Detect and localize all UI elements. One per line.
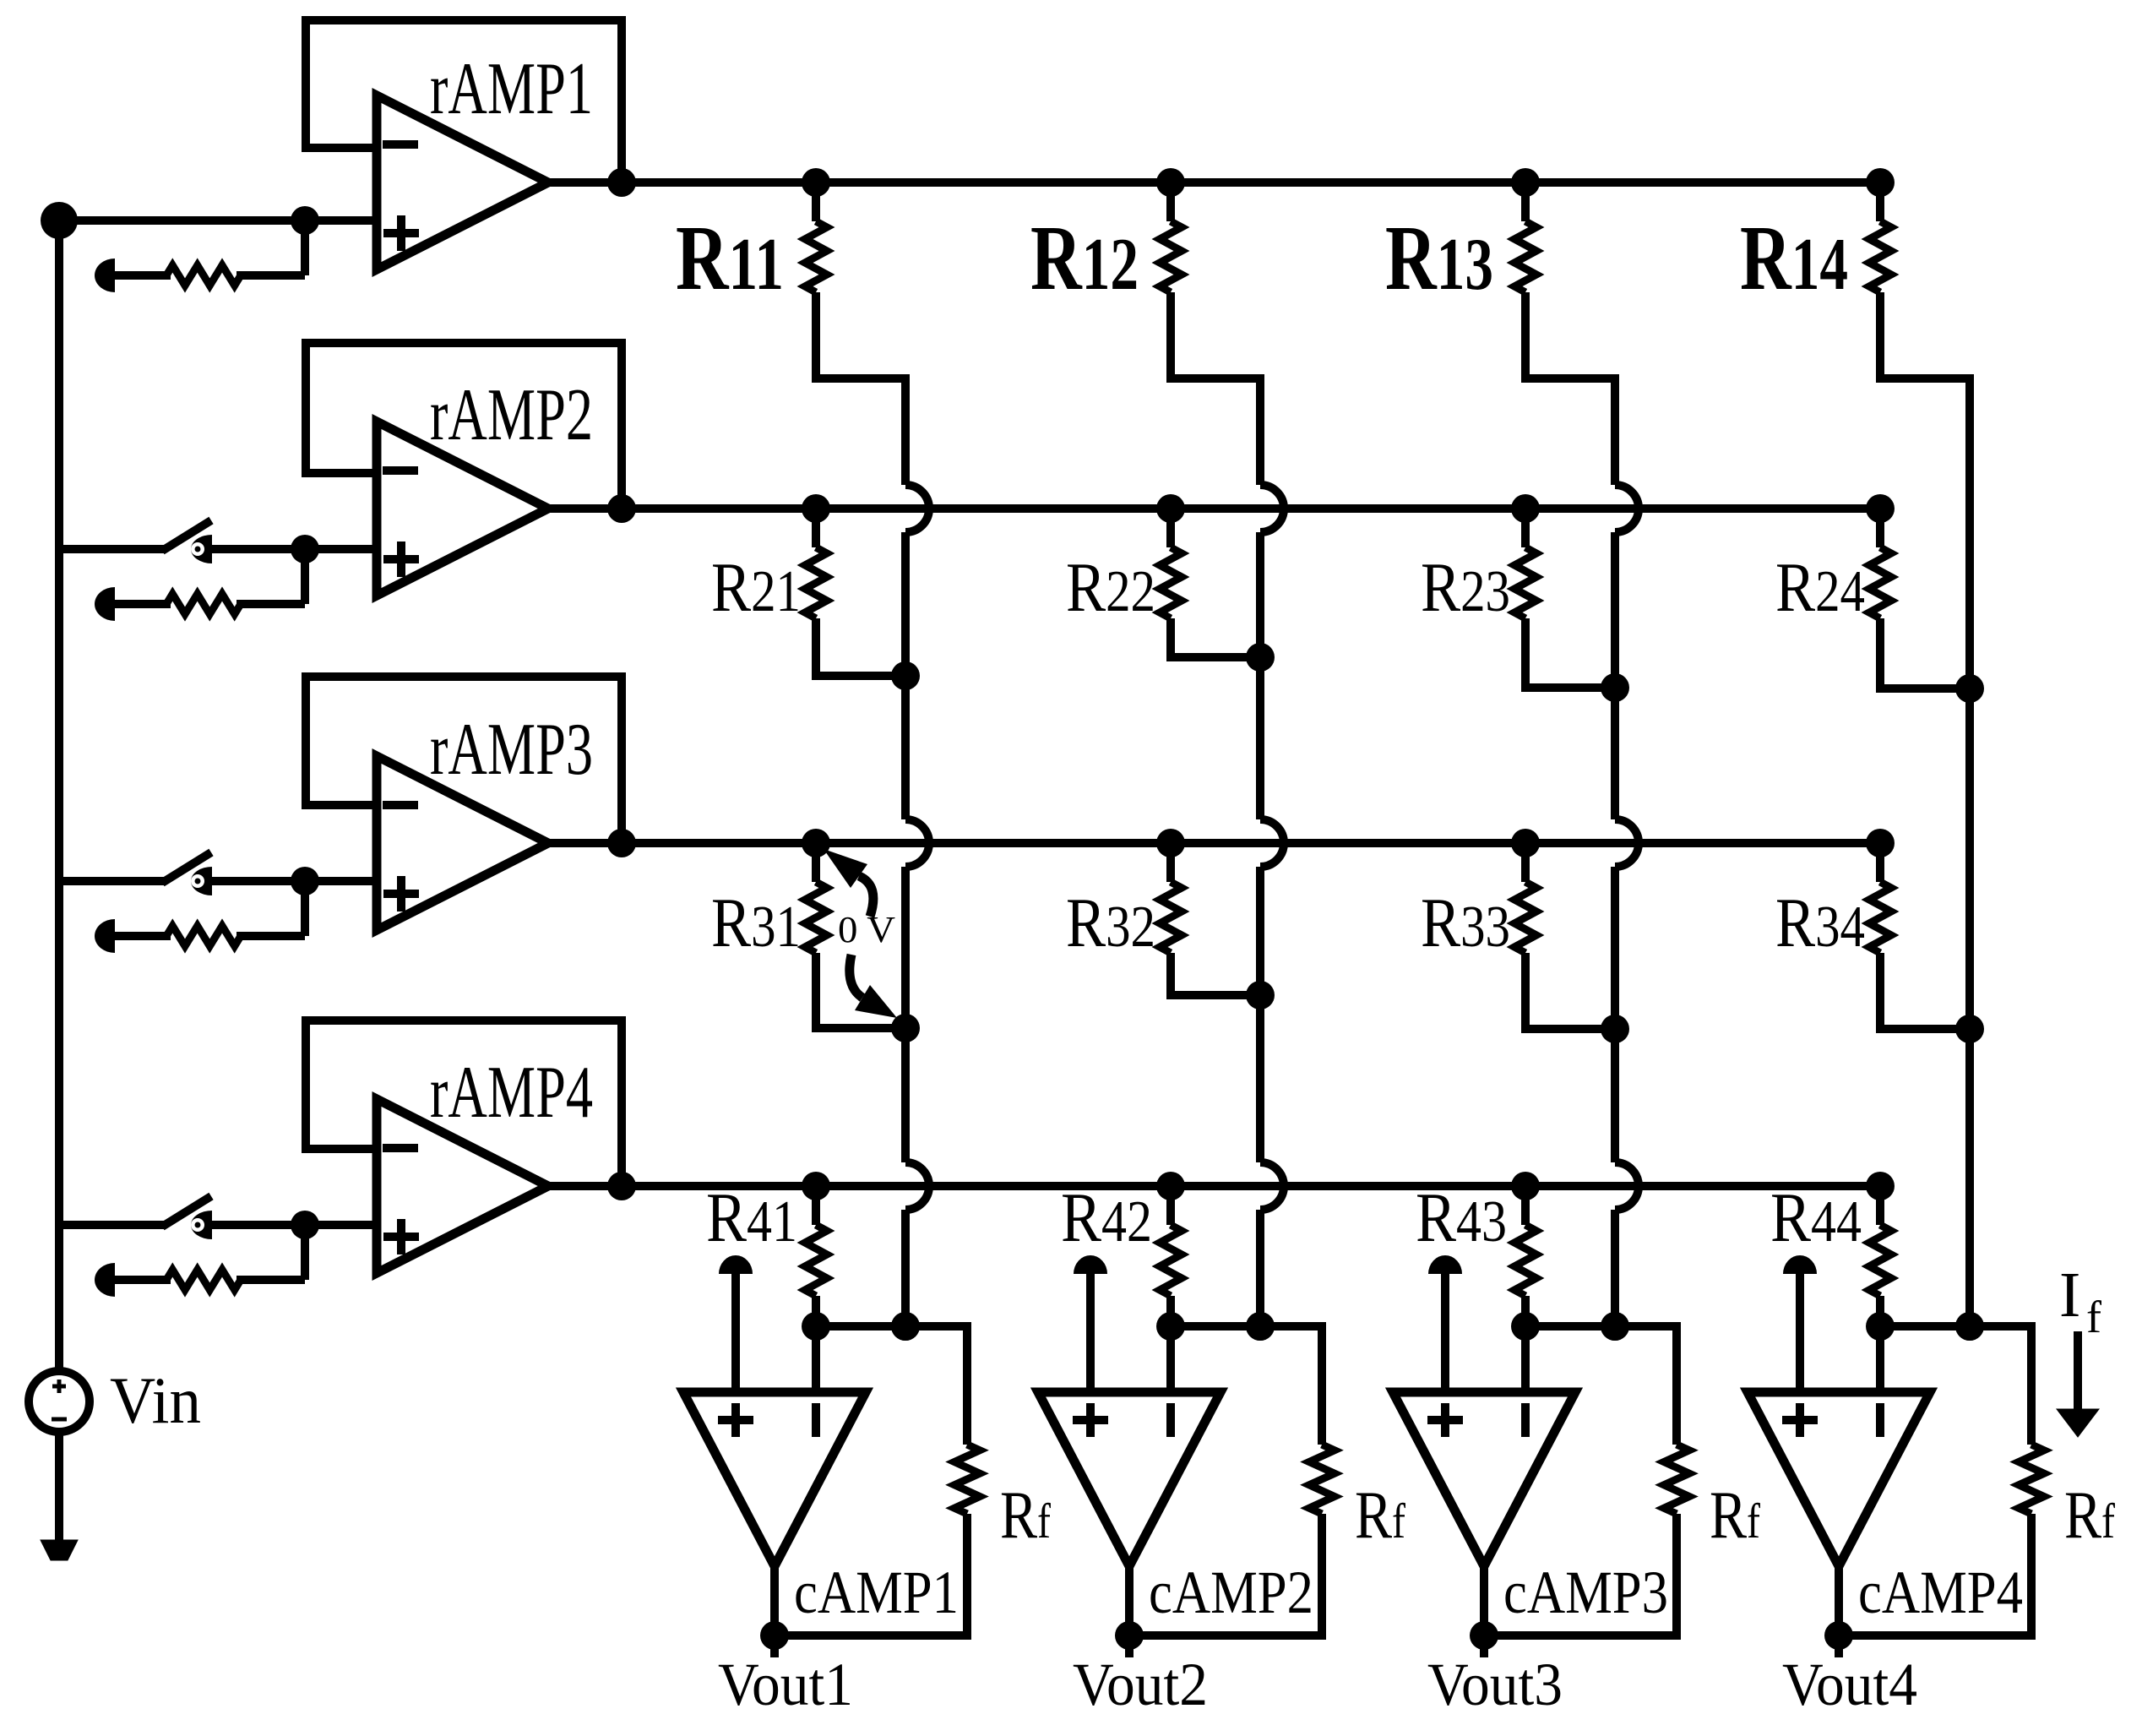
wire column 1 segment	[901, 532, 910, 819]
resistor R13 body	[1514, 221, 1536, 292]
svg-text:R34: R34	[1775, 884, 1865, 962]
resistor R31 top lead	[812, 843, 820, 882]
op-amp cAMP4 plus sign	[1782, 1403, 1818, 1437]
wire column 2 hop over row 4	[1260, 1162, 1284, 1210]
wire column 1 hop over row 3	[905, 819, 929, 867]
annotation arrow to column tie node	[850, 955, 897, 1018]
node bus top junction	[41, 202, 78, 239]
svg-text:R44: R44	[1770, 1178, 1862, 1257]
op-amp cAMP2 triangle	[1038, 1392, 1221, 1566]
wire bus to switch S4	[59, 1221, 165, 1229]
wire cAMP2 minus input	[1166, 1326, 1175, 1394]
node rAMP4 + input tap	[291, 1211, 319, 1239]
op-amp rAMP4 triangle	[377, 1099, 548, 1273]
resistor Rf4 body	[2019, 1445, 2044, 1514]
resistor R14 body	[1869, 221, 1891, 292]
resistor R42 bottom lead and jog	[1171, 1296, 1260, 1326]
wire column 3 hop over row 4	[1615, 1162, 1639, 1210]
wire column 3 hop over row 3	[1615, 819, 1639, 867]
op-amp cAMP3 triangle	[1393, 1392, 1575, 1566]
node R42 column tie	[1246, 1312, 1275, 1341]
wire Rf1 to output	[775, 1514, 967, 1635]
node rAMP3 output	[607, 829, 636, 857]
resistor R11 top lead	[812, 182, 820, 221]
svg-text:R33: R33	[1421, 884, 1510, 962]
resistor R43 body	[1514, 1225, 1536, 1296]
wire R12 jog to column 2	[1171, 292, 1264, 378]
resistor R41 bottom lead and jog	[816, 1296, 905, 1326]
resistor R34 top lead	[1876, 843, 1884, 882]
wire cAMP1 plus input arrow line	[731, 1269, 740, 1394]
wire column 1 segment	[901, 378, 910, 485]
node R22 top junction	[1156, 494, 1185, 523]
node R42 top junction	[1156, 1172, 1185, 1200]
wire column 4 segment	[1965, 378, 1974, 1326]
resistor R31 bottom lead and jog	[816, 953, 905, 1028]
wire tap down to row memristor M4	[301, 1225, 309, 1280]
node rAMP1 + input tap	[291, 206, 319, 235]
wire memristor M1 left lead	[115, 271, 171, 280]
wire cAMP1 minus input	[812, 1326, 820, 1394]
svg-text:rAMP2: rAMP2	[430, 374, 593, 456]
op-amp rAMP3 plus sign	[383, 876, 419, 912]
op-amp rAMP1 triangle	[377, 95, 548, 269]
wire cAMP4 output	[1835, 1566, 1843, 1657]
resistor R21 bottom lead and jog	[816, 618, 905, 676]
node column 2 summing junction	[1246, 1312, 1275, 1341]
node R34 column tie	[1955, 1015, 1984, 1043]
label If	[2059, 1260, 2101, 1342]
node R14 top junction	[1866, 168, 1895, 197]
svg-text:R22: R22	[1066, 548, 1155, 627]
node R31 top junction	[802, 829, 830, 857]
node R31 column tie	[891, 1014, 920, 1042]
node R21 top junction	[802, 494, 830, 523]
node column 1 summing junction	[891, 1312, 920, 1341]
resistor R24 body	[1869, 547, 1891, 618]
wire column 3 segment	[1611, 532, 1619, 819]
svg-text:R32: R32	[1066, 884, 1155, 962]
resistor R21 body	[805, 547, 827, 618]
node rAMP1 output	[607, 168, 636, 197]
svg-text:f: f	[2086, 1292, 2101, 1342]
ground arrow	[41, 1540, 78, 1560]
op-amp cAMP1 triangle	[683, 1392, 866, 1566]
Vin minus sign	[52, 1418, 67, 1422]
resistor R32 body	[1160, 882, 1182, 953]
wire switch S3 to rAMP3 + input	[211, 877, 377, 885]
wire cAMP3 output	[1480, 1566, 1488, 1657]
svg-text:rAMP1: rAMP1	[430, 48, 593, 130]
node R43 bottom junction	[1511, 1312, 1540, 1341]
svg-text:rAMP3: rAMP3	[430, 709, 593, 791]
op-amp rAMP4 minus sign	[383, 1144, 418, 1152]
wire cAMP3 plus input arrow line	[1441, 1269, 1449, 1394]
wire memristor M2 left lead	[115, 600, 171, 608]
svg-text:R43: R43	[1416, 1178, 1507, 1257]
wire tap down to row memristor M2	[301, 549, 309, 604]
resistor R22 body	[1160, 547, 1182, 618]
cAMP1 plus input arrowhead	[719, 1255, 753, 1274]
op-amp rAMP1 minus sign	[383, 140, 418, 149]
memristor M4 body	[166, 1270, 241, 1290]
wire summing junction to Rf4	[1880, 1326, 2031, 1445]
svg-text:I: I	[2059, 1260, 2080, 1331]
node R11 top junction	[802, 168, 830, 197]
wire column 1 hop over row 4	[905, 1162, 929, 1210]
resistor R24 top lead	[1876, 509, 1884, 547]
resistor R42 body	[1160, 1225, 1182, 1296]
wire summing junction to Rf3	[1525, 1326, 1677, 1445]
If current arrowhead	[2057, 1409, 2099, 1437]
wire Vin to ground	[55, 1432, 63, 1543]
wire cAMP2 output	[1125, 1566, 1134, 1657]
node Vout2	[1115, 1621, 1144, 1650]
node rAMP2 output	[607, 494, 636, 523]
svg-text:R23: R23	[1421, 548, 1510, 627]
node R32 column tie	[1246, 981, 1275, 1009]
node R44 bottom junction	[1866, 1312, 1895, 1341]
wire column 2 segment	[1256, 532, 1264, 819]
wire rAMP2 output row line	[548, 504, 1886, 513]
op-amp cAMP4 triangle	[1748, 1392, 1930, 1566]
svg-text:Vout1: Vout1	[718, 1651, 853, 1718]
wire column 1 segment	[901, 867, 910, 1162]
node R24 top junction	[1866, 494, 1895, 523]
node Vout3	[1470, 1621, 1498, 1650]
op-amp rAMP2 feedback box	[306, 343, 622, 509]
svg-text:cAMP3: cAMP3	[1503, 1559, 1668, 1626]
resistor R22 top lead	[1166, 509, 1175, 547]
wire memristor M2 right lead	[236, 600, 305, 608]
svg-text:rAMP4: rAMP4	[430, 1052, 593, 1134]
resistor R34 body	[1869, 882, 1891, 953]
resistor R13 top lead	[1521, 182, 1530, 221]
resistor R44 body	[1869, 1225, 1891, 1296]
node Vout4	[1824, 1621, 1853, 1650]
cAMP2 plus input arrowhead	[1074, 1255, 1107, 1274]
op-amp rAMP2 triangle	[377, 422, 548, 596]
wire column 3 hop over row 2	[1615, 485, 1639, 532]
resistor R31 body	[805, 882, 827, 953]
cAMP4 plus input arrowhead	[1783, 1255, 1817, 1274]
wire tap down to row memristor M3	[301, 881, 309, 936]
node R22 column tie	[1246, 643, 1275, 672]
switch S2 lever	[162, 520, 211, 551]
wire memristor M4 left lead	[115, 1276, 171, 1284]
wire column 3 segment	[1611, 867, 1619, 1162]
node R13 top junction	[1511, 168, 1540, 197]
wire tap down to row memristor M1	[301, 220, 309, 275]
wire R13 jog to column 3	[1525, 292, 1619, 378]
svg-text:R24: R24	[1775, 548, 1865, 627]
node rAMP4 output	[607, 1172, 636, 1200]
wire bus to switch S3	[59, 877, 165, 885]
resistor R24 bottom lead and jog	[1880, 618, 1970, 688]
resistor R32 top lead	[1166, 843, 1175, 882]
resistor Rf2 body	[1309, 1445, 1335, 1514]
wire Rf4 to output	[1839, 1514, 2031, 1635]
svg-text:Vout3: Vout3	[1427, 1651, 1563, 1718]
op-amp rAMP4 plus sign	[383, 1219, 419, 1254]
node R24 column tie	[1955, 674, 1984, 703]
wire column 1 segment	[901, 1210, 910, 1326]
wire column 3 segment	[1611, 1210, 1619, 1326]
node R41 top junction	[802, 1172, 830, 1200]
resistor R34 bottom lead and jog	[1880, 953, 1970, 1029]
wire cAMP4 plus input arrow line	[1796, 1269, 1804, 1394]
op-amp cAMP3 plus sign	[1427, 1403, 1463, 1437]
svg-text:Vin: Vin	[110, 1363, 201, 1437]
op-amp rAMP4 feedback box	[306, 1020, 622, 1186]
memristor M1 body	[166, 265, 241, 286]
op-amp cAMP2 plus sign	[1073, 1403, 1108, 1437]
svg-text:Vout4: Vout4	[1782, 1651, 1917, 1718]
svg-text:Vout2: Vout2	[1073, 1651, 1208, 1718]
wire R11 jog to column 1	[816, 292, 910, 378]
op-amp cAMP1 plus sign	[718, 1403, 753, 1437]
node R44 column tie	[1955, 1312, 1984, 1341]
If current arrow line	[2074, 1331, 2082, 1412]
memristor M3 body	[166, 926, 241, 946]
resistor R11 body	[805, 221, 827, 292]
svg-text:R42: R42	[1061, 1178, 1152, 1257]
wire summing junction to Rf2	[1171, 1326, 1322, 1445]
node R41 bottom junction	[802, 1312, 830, 1341]
node R43 top junction	[1511, 1172, 1540, 1200]
memristor M2 arrowhead	[95, 587, 115, 621]
wire Rf2 to output	[1129, 1514, 1322, 1635]
memristor M1 arrowhead	[95, 258, 115, 292]
resistor R41 body	[805, 1225, 827, 1296]
wire rAMP1 noninverting input line	[59, 216, 377, 225]
wire Vin bus (left vertical rail)	[55, 220, 63, 1371]
resistor R43 bottom lead and jog	[1525, 1296, 1615, 1326]
node R33 top junction	[1511, 829, 1540, 857]
wire cAMP3 minus input	[1521, 1326, 1530, 1394]
resistor R12 top lead	[1166, 182, 1175, 221]
wire rAMP3 output row line	[548, 839, 1886, 847]
node R42 bottom junction	[1156, 1312, 1185, 1341]
node R21 column tie	[891, 661, 920, 690]
svg-text:cAMP2: cAMP2	[1149, 1559, 1313, 1626]
wire rAMP1 output row line	[548, 178, 1886, 187]
wire column 2 hop over row 2	[1260, 485, 1284, 532]
node rAMP2 + input tap	[291, 535, 319, 563]
wire bus to switch S2	[59, 545, 165, 553]
wire Rf3 to output	[1484, 1514, 1677, 1635]
wire column 3 segment	[1611, 378, 1619, 485]
annotation arrow to row3 node	[824, 849, 873, 917]
wire summing junction to Rf1	[816, 1326, 967, 1445]
node R23 column tie	[1601, 673, 1629, 702]
op-amp cAMP2 minus sign bar	[1166, 1403, 1175, 1437]
wire switch S2 to rAMP2 + input	[211, 545, 377, 553]
op-amp rAMP3 triangle	[377, 756, 548, 930]
node R33 column tie	[1601, 1015, 1629, 1043]
resistor R23 top lead	[1521, 509, 1530, 547]
resistor R21 top lead	[812, 509, 820, 547]
wire R14 jog to column 4	[1880, 292, 1974, 378]
resistor Rf3 body	[1664, 1445, 1689, 1514]
svg-text:cAMP1: cAMP1	[794, 1559, 959, 1626]
wire memristor M3 left lead	[115, 932, 171, 940]
wire cAMP4 minus input	[1876, 1326, 1884, 1394]
wire column 1 hop over row 2	[905, 485, 929, 532]
resistor R23 bottom lead and jog	[1525, 618, 1615, 688]
resistor R33 body	[1514, 882, 1536, 953]
node R41 column tie	[891, 1312, 920, 1341]
wire switch S4 to rAMP4 + input	[211, 1221, 377, 1229]
wire memristor M1 right lead	[236, 271, 305, 280]
switch S2 contact arrow	[191, 535, 212, 563]
svg-text:R41: R41	[706, 1178, 797, 1257]
wire column 2 segment	[1256, 378, 1264, 485]
resistor R44 top lead	[1876, 1186, 1884, 1225]
node column 4 summing junction	[1955, 1312, 1984, 1341]
switch S3 contact arrow	[191, 867, 212, 895]
resistor R32 bottom lead and jog	[1171, 953, 1260, 995]
resistor R14 top lead	[1876, 182, 1884, 221]
resistor Rf1 body	[954, 1445, 980, 1514]
resistor R22 bottom lead and jog	[1171, 618, 1260, 657]
switch S4 lever	[162, 1196, 211, 1227]
op-amp rAMP3 minus sign	[383, 801, 418, 809]
node Vout1	[760, 1621, 789, 1650]
voltage source Vin circle	[29, 1371, 90, 1432]
Vin plus sign	[52, 1380, 66, 1393]
resistor R23 body	[1514, 547, 1536, 618]
op-amp rAMP1 feedback box	[306, 20, 622, 182]
resistor R43 top lead	[1521, 1186, 1530, 1225]
node rAMP3 + input tap	[291, 867, 319, 895]
wire cAMP2 plus input arrow line	[1086, 1269, 1095, 1394]
wire memristor M3 right lead	[236, 932, 305, 940]
node R32 top junction	[1156, 829, 1185, 857]
wire rAMP4 output row line	[548, 1182, 1886, 1190]
memristor M4 arrowhead	[95, 1263, 115, 1297]
op-amp rAMP2 plus sign	[383, 541, 419, 577]
node column 3 summing junction	[1601, 1312, 1629, 1341]
node R43 column tie	[1601, 1312, 1629, 1341]
switch S3 lever	[162, 852, 211, 883]
resistor R33 top lead	[1521, 843, 1530, 882]
resistor R44 bottom lead and jog	[1880, 1296, 1970, 1326]
cAMP3 plus input arrowhead	[1428, 1255, 1462, 1274]
svg-text:R21: R21	[711, 548, 801, 627]
node R23 top junction	[1511, 494, 1540, 523]
memristor M2 body	[166, 594, 241, 614]
wire column 2 hop over row 3	[1260, 819, 1284, 867]
op-amp rAMP1 plus sign	[383, 215, 419, 251]
switch S4 contact arrow	[191, 1211, 212, 1239]
resistor R41 top lead	[812, 1186, 820, 1225]
wire cAMP1 output	[770, 1566, 779, 1657]
op-amp cAMP3 minus sign bar	[1521, 1403, 1530, 1437]
node R44 top junction	[1866, 1172, 1895, 1200]
node R34 top junction	[1866, 829, 1895, 857]
resistor R12 body	[1160, 221, 1182, 292]
wire column 2 segment	[1256, 1210, 1264, 1326]
op-amp rAMP3 feedback box	[306, 677, 622, 843]
svg-text:R31: R31	[711, 884, 801, 962]
node R12 top junction	[1156, 168, 1185, 197]
op-amp rAMP2 minus sign	[383, 466, 418, 475]
memristor M3 arrowhead	[95, 919, 115, 953]
svg-text:cAMP4: cAMP4	[1858, 1559, 2023, 1626]
wire memristor M4 right lead	[236, 1276, 305, 1284]
resistor R33 bottom lead and jog	[1525, 953, 1615, 1029]
resistor R42 top lead	[1166, 1186, 1175, 1225]
wire column 2 segment	[1256, 867, 1264, 1162]
op-amp cAMP1 minus sign bar	[812, 1403, 820, 1437]
op-amp cAMP4 minus sign bar	[1876, 1403, 1884, 1437]
